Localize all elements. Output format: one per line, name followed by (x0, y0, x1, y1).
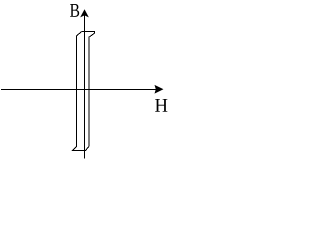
B axis (84, 13, 86, 159)
H axis (1, 89, 156, 91)
hysteresis loop (72, 32, 94, 151)
B axis arrowhead (81, 10, 87, 16)
label H (155, 99, 167, 112)
H axis arrowhead (155, 86, 162, 93)
label B (70, 4, 79, 17)
